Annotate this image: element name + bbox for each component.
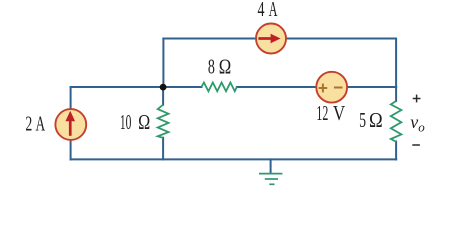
svg-text:V: V	[333, 101, 345, 125]
svg-text:Ω: Ω	[219, 55, 232, 79]
svg-text:10: 10	[120, 110, 131, 134]
svg-text:A: A	[269, 0, 278, 21]
svg-text:4: 4	[258, 0, 265, 21]
svg-text:Ω: Ω	[138, 110, 150, 134]
svg-text:8: 8	[208, 55, 215, 79]
svg-text:2: 2	[25, 111, 32, 135]
svg-text:5: 5	[359, 108, 366, 132]
svg-text:A: A	[36, 111, 46, 135]
svg-text:12: 12	[316, 101, 328, 125]
svg-text:Ω: Ω	[369, 108, 383, 132]
